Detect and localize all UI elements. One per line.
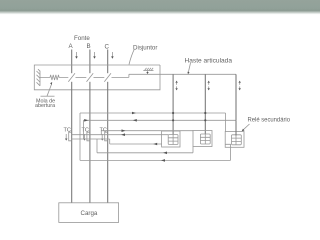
svg-text:Relé secundário: Relé secundário (248, 117, 291, 124)
svg-text:C: C (105, 43, 110, 50)
anchor wall hatched (37, 69, 41, 86)
blade A (68, 73, 75, 82)
motion arrows rod2 (208, 81, 210, 91)
arrow current A (75, 52, 78, 59)
wire phase C upper (107, 50, 109, 74)
breaker bus segment A-B (76, 76, 87, 78)
junction rod2 W1 (204, 112, 206, 114)
arrow on W6 (153, 143, 157, 146)
motion arrows rod1 (175, 81, 177, 91)
junction rod1 W2 (172, 119, 174, 121)
riser V2 (83, 120, 85, 139)
arrow on W8 (161, 159, 165, 162)
wire W6 relay1 return (110, 143, 162, 145)
blade C (104, 73, 111, 82)
svg-text:TC: TC (64, 128, 71, 134)
bus step up to haste (128, 74, 130, 77)
svg-text:Carga: Carga (81, 210, 98, 217)
wire W7 relay2 return (97, 152, 193, 154)
wire W3 to relay2 (101, 130, 193, 132)
coil relay 2 (200, 134, 210, 144)
CT1 bracket (69, 132, 72, 141)
pointer haste (188, 63, 190, 72)
wire W4 CT upper chain (72, 134, 168, 136)
blade B (87, 73, 94, 82)
rod drop 1 (172, 74, 174, 134)
coil relay 3 (232, 135, 242, 145)
CT1 arrow (65, 134, 67, 141)
wire phase A upper (71, 50, 73, 74)
svg-text:TC: TC (82, 128, 89, 134)
label Mola de abertura (35, 98, 55, 109)
riser TC3 down (109, 139, 111, 144)
load box Carga (59, 203, 119, 223)
latch symbol (143, 68, 153, 74)
wire W2 trip lower (84, 119, 237, 121)
breaker bus segment B-C (94, 76, 105, 78)
rod drop right end (235, 74, 237, 120)
label Disjuntor (133, 45, 157, 52)
junction rod1 W1 (172, 112, 174, 114)
relay box 1 (162, 131, 180, 147)
spring mola (40, 75, 68, 80)
CT2 bracket (87, 132, 90, 141)
arrow current C (111, 52, 114, 59)
label Rele secundario (248, 117, 291, 124)
motion arrows rod3 (239, 81, 241, 91)
svg-text:B: B (87, 43, 91, 50)
label Fonte (74, 35, 90, 42)
svg-text:Haste articulada: Haste articulada (185, 58, 233, 65)
riser relay3 return (225, 144, 230, 160)
riser TC2 down (96, 139, 98, 153)
pointer mola (41, 95, 55, 97)
relay box 3 (225, 132, 244, 148)
pointer rele (243, 124, 249, 130)
coil relay 1 (168, 135, 178, 145)
riser TC2 up (100, 131, 102, 135)
corner W1 to relay3 (225, 113, 227, 132)
rod drop 2 (204, 74, 206, 134)
rod drop relay3 (235, 120, 237, 135)
arrow on W2 left (84, 119, 88, 122)
label TC2 (82, 128, 89, 134)
junction rod2 W2 (204, 119, 206, 121)
CT3 arrow (101, 134, 103, 141)
label Carga (81, 210, 98, 217)
CT3 bracket (105, 132, 108, 141)
riser relay2 return (192, 147, 194, 153)
header band (0, 0, 320, 11)
label TC3 (100, 128, 107, 134)
arrow on W2 mid (133, 119, 137, 122)
breaker bus segment C-step (112, 76, 129, 78)
CT2 arrow (83, 134, 85, 141)
label phase A (69, 43, 74, 50)
wire phase A lower (71, 82, 73, 203)
svg-text:Fonte: Fonte (74, 35, 90, 42)
label phase B (87, 43, 91, 50)
label TC1 (64, 128, 71, 134)
wire phase B upper (89, 50, 91, 74)
wire W5 CT lower chain (72, 138, 110, 140)
arrow on W3 (122, 129, 126, 132)
breaker box Disjuntor (34, 65, 160, 90)
arrow current B (93, 52, 96, 59)
svg-text:Disjuntor: Disjuntor (133, 45, 157, 52)
riser V1 (79, 113, 81, 160)
arrow on W4 (121, 133, 125, 136)
relay box 2 (193, 131, 212, 147)
haste articulada rod (129, 73, 236, 75)
wire phase B lower (89, 82, 91, 203)
arrow on W7 (163, 152, 167, 155)
wire W1 trip upper (80, 112, 226, 114)
arrow on W1 (132, 112, 136, 115)
wire W8 relay3 return (80, 159, 231, 161)
pointer disjuntor (129, 49, 135, 65)
wire phase C lower (107, 82, 109, 203)
svg-text:abertura: abertura (35, 103, 55, 109)
label phase C (105, 43, 110, 50)
label Haste articulada (185, 58, 233, 65)
